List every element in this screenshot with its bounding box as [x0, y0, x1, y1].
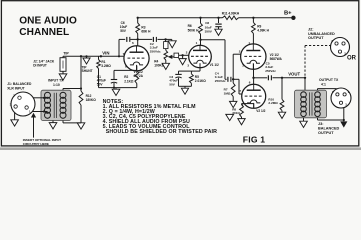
wire midpoint to C5 [254, 77, 268, 79]
ground R7 [230, 101, 237, 107]
svg-text:J2:: J2: [308, 27, 314, 31]
node rail-R6 junction [199, 17, 201, 19]
svg-text:3.2MΩ: 3.2MΩ [101, 64, 111, 68]
resistor R12 [79, 91, 83, 105]
svg-text:FIG 1: FIG 1 [243, 135, 266, 145]
grid stopper box [174, 53, 179, 57]
svg-text:4:1: 4:1 [321, 82, 326, 86]
resistor R7 [232, 79, 234, 83]
wire V2a cathode to midpoint [253, 64, 255, 78]
svg-text:180KΩ: 180KΩ [86, 98, 97, 102]
wire primary bottom [32, 111, 47, 113]
ground top of pot [168, 41, 176, 48]
capacitor C6 [119, 38, 125, 40]
svg-text:301Ω: 301Ω [232, 111, 240, 115]
node rail-C8 junction [217, 17, 219, 19]
svg-text:2.1KΩ: 2.1KΩ [124, 79, 134, 83]
svg-text:VOUT: VOUT [288, 72, 300, 77]
resistor R10 [281, 78, 283, 100]
connector J1 XLR input [11, 92, 35, 116]
wire VIN/TIP [63, 55, 124, 57]
node V1b plate junction [199, 39, 201, 41]
ground J1 [14, 113, 16, 120]
triode V2a [241, 44, 266, 69]
node R10 junction [281, 77, 283, 79]
svg-text:DI INPUT: DI INPUT [33, 64, 47, 68]
ground T1 primary [52, 120, 54, 122]
ground jack sleeve [62, 71, 64, 74]
ground V1b cathode [184, 86, 186, 88]
transformer T1 input TX [41, 90, 71, 120]
ground J3 shell [340, 121, 347, 127]
node V1a plate junction [137, 38, 139, 40]
wire V1b plate lead [200, 40, 202, 51]
svg-text:J3:: J3: [318, 122, 324, 126]
resistor R9 [252, 18, 254, 23]
svg-text:UNBALANCED: UNBALANCED [308, 32, 335, 36]
wire C6 to grid node [118, 39, 120, 56]
svg-text:1:10: 1:10 [53, 83, 60, 87]
ground C8 [215, 29, 222, 35]
svg-text:250Vdc: 250Vdc [150, 50, 161, 54]
svg-text:VIN: VIN [102, 51, 109, 56]
svg-text:50V: 50V [169, 83, 174, 87]
node rail-R3 junction [137, 17, 139, 19]
resistor R8 [253, 103, 255, 105]
svg-text:SHOULD BE SHIELDED OR TWISTED: SHOULD BE SHIELDED OR TWISTED PAIR [103, 129, 218, 135]
triode V2b [242, 84, 266, 108]
svg-text:R11 4.99KH: R11 4.99KH [222, 12, 240, 16]
svg-text:CIRCUITRY HERE: CIRCUITRY HERE [23, 142, 49, 146]
node TIP-secondary junction [80, 55, 82, 57]
ground spare mid [226, 114, 234, 120]
wire V1b cathode [199, 64, 201, 71]
wire cathode net bottom [179, 85, 192, 87]
wire V1a cathode [136, 66, 138, 71]
wire V1b plate to C4 [201, 39, 226, 41]
tip shunt contact [85, 55, 87, 57]
svg-text:BALANCED: BALANCED [318, 126, 340, 130]
node VIN junction [100, 55, 102, 57]
potentiometer R4 [165, 49, 167, 51]
svg-text:ONE AUDIO: ONE AUDIO [19, 15, 77, 26]
capacitor C8 [218, 18, 220, 23]
capacitor C2 [152, 37, 154, 42]
wire V2b grid [238, 79, 240, 94]
svg-text:2.01KΩ: 2.01KΩ [195, 79, 207, 83]
wire plate to C2 [138, 38, 153, 40]
ground T2 primary [303, 118, 305, 121]
jack J2 quarter-inch [62, 56, 64, 57]
ground R12 [77, 123, 85, 129]
wire B+ rail [138, 17, 223, 19]
ground pot bottom [162, 63, 169, 69]
svg-text:1MΩ: 1MΩ [224, 91, 231, 95]
svg-text:V1 1/2: V1 1/2 [210, 63, 219, 67]
ground R8 [238, 119, 245, 125]
svg-text:350V: 350V [205, 29, 213, 33]
triode V1b [189, 45, 212, 68]
svg-text:OUTPUT: OUTPUT [308, 36, 324, 40]
capacitor C4 [227, 77, 229, 82]
wire secondary top [317, 89, 319, 91]
transformer T2 output TX [295, 90, 327, 118]
svg-text:XLR INPUT: XLR INPUT [7, 86, 24, 90]
svg-text:68K H: 68K H [141, 30, 151, 34]
svg-text:OUTPUT TX: OUTPUT TX [319, 78, 339, 82]
svg-text:4.99K H: 4.99K H [257, 29, 269, 33]
resistor R11 (rail series) [223, 16, 239, 20]
svg-text:50V: 50V [120, 29, 127, 33]
resistor R6 [200, 18, 202, 23]
wire to top ground [166, 38, 172, 40]
ground V1a cathode [115, 88, 117, 90]
node grid-A junction [232, 78, 234, 80]
resistor R2 [135, 70, 139, 83]
node midpoint [252, 77, 254, 79]
capacitor C3 [179, 70, 192, 72]
wire secondary bottom [317, 118, 319, 120]
wire secondary riser [80, 56, 82, 88]
wire secondary bottom [62, 120, 64, 123]
svg-text:B+: B+ [284, 10, 292, 16]
connector J2 XLR unbalanced [331, 38, 350, 57]
node grid junction [181, 54, 183, 56]
wire V2a grid tie [232, 54, 234, 79]
ground R10 [278, 112, 285, 118]
svg-text:V2 1/2: V2 1/2 [256, 109, 265, 113]
node C6-grid junction [118, 55, 120, 57]
svg-text:OUTPUT: OUTPUT [318, 131, 334, 135]
svg-text:250Vdc: 250Vdc [265, 69, 276, 73]
wire V2b cathode [253, 104, 255, 109]
svg-text:TIP: TIP [63, 52, 69, 56]
wire cathode bypass top [114, 69, 137, 71]
wire V2b plate lead [253, 78, 255, 85]
svg-text:5687WA: 5687WA [270, 57, 283, 61]
insert arrow [33, 117, 35, 138]
svg-text:250Vdc: 250Vdc [215, 79, 226, 83]
resistor R3 [137, 18, 139, 23]
svg-text:2.2MΩ: 2.2MΩ [268, 101, 278, 105]
connector J3 XLR output [331, 88, 351, 108]
node rail-R9 junction [252, 17, 254, 19]
trimmer box [164, 42, 168, 49]
resistor R5 [190, 71, 192, 74]
B+ terminal [291, 16, 295, 20]
capacitor C1 [113, 70, 115, 79]
svg-text:500K H: 500K H [188, 28, 200, 32]
resistor R1 [98, 56, 100, 59]
svg-text:OR: OR [347, 56, 357, 62]
triode V1a [124, 46, 149, 71]
svg-text:CHANNEL: CHANNEL [19, 27, 69, 38]
wire cathode net bottom V1a [99, 87, 137, 89]
wire V1a plate lead [137, 39, 139, 52]
wire TX primary top [304, 78, 306, 90]
wire primary top [33, 97, 47, 99]
svg-text:SHUNT: SHUNT [82, 69, 93, 73]
node C2 out junction [164, 38, 166, 40]
wire dashed unbalanced [304, 46, 306, 78]
ground grid leak [182, 55, 184, 58]
svg-text:50V: 50V [97, 82, 104, 86]
wire secondary top link [63, 88, 81, 90]
border frame [1, 1, 358, 146]
node output TX junction [304, 77, 306, 79]
capacitor C5 [267, 75, 269, 80]
